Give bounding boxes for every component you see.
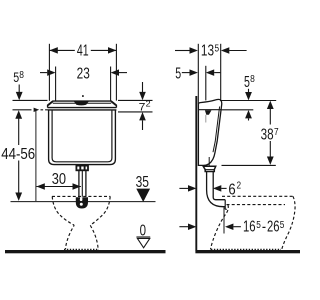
bowl side seat top dashed (222, 195, 293, 197)
tank bottom leader right (222, 164, 276, 166)
cistern top leader right (220, 100, 276, 102)
lid bottom leader left with arrow and dashes (13, 109, 32, 111)
dim 16-5-26-5 arrow at bowl line (225, 223, 233, 230)
svg-text:44-56: 44-56 (1, 146, 35, 163)
dim 44-56 vertical line (18, 119, 20, 146)
tank outer (49, 110, 116, 165)
bowl front base dashed (64, 248, 99, 250)
dim 7-2 bottom leader (118, 111, 153, 113)
bowl side front dashed (282, 196, 295, 250)
dim 41 arrowheads (49, 47, 57, 54)
svg-text:5: 5 (215, 44, 220, 55)
pipe connector socket (76, 197, 88, 208)
pipe end lip (225, 208, 227, 210)
dim 5 extension (205, 66, 207, 101)
cistern lid joint line (198, 109, 221, 111)
svg-text:0: 0 (140, 222, 147, 239)
dim 41 extension line left (48, 44, 50, 101)
dim 5-8 right arrows (248, 89, 250, 92)
dim 30 extension line (35, 111, 37, 202)
dim 13-5 lines (175, 50, 190, 52)
dim 7-2 top leader (118, 99, 153, 101)
svg-text:6: 6 (228, 181, 235, 198)
svg-text:7: 7 (274, 127, 279, 138)
dim 23 tick left (55, 67, 57, 101)
svg-text:38: 38 (261, 127, 274, 144)
bowl reference line (223, 208, 225, 234)
svg-text:5: 5 (244, 74, 250, 91)
bowl front dashed top (52, 195, 110, 197)
bowl front dashed right side (90, 196, 110, 249)
dim 30 line (36, 186, 81, 188)
dim 13-5 arrowheads (190, 47, 198, 54)
bowl side seat lower dashed (227, 204, 286, 206)
label 5-8 pointer line (18, 85, 20, 93)
svg-text:-: - (262, 219, 266, 236)
level line 35 (11, 201, 156, 203)
svg-text:2: 2 (237, 180, 242, 191)
dim 38-7 arrowheads (267, 101, 274, 109)
level marker 35 triangle (136, 189, 150, 202)
cistern side inner front line (213, 107, 220, 153)
datum 0 underline (136, 236, 150, 238)
bowl front dashed left side (52, 196, 74, 249)
flush pipe nut (76, 166, 88, 171)
lid bottom rim lines (48, 107, 117, 109)
dim 6-2 arrow at wall (179, 187, 188, 189)
svg-text:26: 26 (267, 219, 280, 236)
svg-text:5: 5 (175, 65, 181, 82)
dim 5 line left (182, 72, 190, 74)
dim 16-5-26-5 arrow at wall (179, 226, 188, 228)
floor slab right (195, 250, 300, 253)
nut side (203, 166, 216, 171)
svg-text:5: 5 (256, 220, 261, 231)
dim 23 tick right (110, 67, 112, 101)
button hidden line (205, 115, 207, 123)
svg-text:8: 8 (19, 70, 24, 81)
wall (195, 96, 197, 251)
dim 6-2 arrow at pipe (213, 185, 221, 192)
svg-text:30: 30 (52, 171, 67, 188)
svg-text:2: 2 (146, 99, 152, 108)
dim 23 arrowheads (47, 69, 55, 76)
bowl side base dashed (211, 248, 281, 250)
tank inner (52, 110, 112, 162)
cistern side outline (198, 99, 221, 165)
dim 41 extension line right (115, 44, 117, 101)
wall extension line top (197, 44, 199, 104)
cistern lid bottom leader right (221, 109, 253, 111)
bowl side back dashed (211, 205, 229, 250)
cistern lid front (48, 101, 117, 108)
svg-text:23: 23 (77, 65, 90, 82)
svg-text:35: 35 (136, 174, 149, 191)
lid grip recess (74, 101, 89, 105)
lid top leader left (13, 99, 48, 101)
dim 13-5 extension right (220, 44, 222, 100)
pipe end cap (224, 200, 226, 210)
dim 44-56 arrowheads (15, 110, 22, 118)
lid center tick (82, 95, 84, 97)
flush pipe side + bend (207, 172, 226, 207)
dim 5 line right (214, 72, 220, 74)
dim 23 outside lines (40, 72, 47, 74)
dim 7-2 arrows (142, 82, 144, 92)
svg-text:13: 13 (201, 43, 214, 60)
dim 30 arrowheads (36, 183, 44, 190)
dim 38-7 vertical line (269, 109, 271, 125)
flush button wedge (205, 110, 212, 115)
svg-text:8: 8 (250, 74, 255, 85)
datum 0 open triangle (137, 238, 149, 247)
svg-text:7: 7 (139, 101, 146, 113)
dim 41 line (49, 49, 74, 51)
floor slab left (5, 250, 166, 253)
flush pipe front (78, 170, 80, 196)
svg-text:5: 5 (280, 220, 285, 231)
svg-text:16: 16 (243, 219, 256, 236)
svg-text:41: 41 (77, 43, 89, 60)
lid inner top line (53, 102, 111, 104)
